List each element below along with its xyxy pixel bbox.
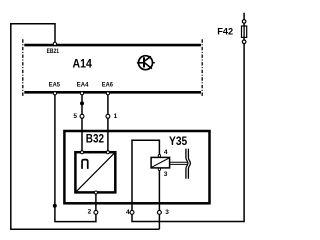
wire: EA4 down to B32 sensor top-left pin xyxy=(81,93,83,152)
svg-text:5: 5 xyxy=(73,113,77,120)
pin EB21 on A14 top xyxy=(53,42,56,45)
wire: Y35 pin4 elbow, down to terminal 4, right and up to fuse F42 xyxy=(132,13,244,222)
pin EA4 on A14 bottom xyxy=(80,92,83,95)
sensor pin top-left xyxy=(81,151,84,154)
valve diagonal xyxy=(152,158,169,167)
junction dot on EA5 wire xyxy=(53,204,57,208)
wire: Y35 pin3 down through terminal circle 3 to bottom run xyxy=(158,170,160,229)
sensor diagonal xyxy=(77,153,115,191)
sensor pin bottom xyxy=(94,191,97,194)
svg-text:3: 3 xyxy=(164,171,168,178)
svg-text:3: 3 xyxy=(165,209,169,216)
pin EA6 on A14 bottom xyxy=(106,92,109,95)
svg-text:F42: F42 xyxy=(217,26,233,37)
terminal circle 3 xyxy=(157,210,161,214)
junction dot on EA4 wire xyxy=(80,101,84,105)
A14 bottom border line xyxy=(24,91,201,94)
svg-text:A14: A14 xyxy=(73,57,93,71)
wire: EB21 feed, left side run, bottom run to terminal 3 xyxy=(11,24,160,229)
fuse body xyxy=(242,26,247,37)
A14 top border line xyxy=(24,44,201,47)
svg-text:EA4: EA4 xyxy=(77,81,89,88)
svg-text:EB21: EB21 xyxy=(47,48,60,55)
fuse element line xyxy=(243,26,245,37)
wire: EA6 down to B32 sensor top-right pin xyxy=(107,93,109,152)
A14 left dash-dot border xyxy=(22,39,24,97)
sensor B32 square xyxy=(75,152,115,192)
valve mechanical linkage double line upper xyxy=(170,161,187,163)
fuse F42 symbol xyxy=(242,20,247,44)
svg-text:EA6: EA6 xyxy=(102,81,114,88)
valve pin 4 xyxy=(158,155,160,157)
terminal circle 4 xyxy=(130,210,134,214)
svg-text:Y35: Y35 xyxy=(169,134,188,148)
sensor Pi symbol xyxy=(82,160,88,169)
fuse top connector circle xyxy=(242,20,246,24)
svg-text:2: 2 xyxy=(88,209,92,216)
svg-text:4: 4 xyxy=(126,209,130,216)
wire: EA5 down, along bottom, up to terminal 2 and B32 bottom pin xyxy=(55,93,96,222)
valve mechanical linkage double line lower xyxy=(170,163,187,165)
solenoid valve Y35 body xyxy=(151,157,170,168)
pin EA5 on A14 bottom xyxy=(53,92,56,95)
terminal circle 1 xyxy=(106,114,110,118)
valve pin 3 xyxy=(158,168,160,170)
svg-text:EA5: EA5 xyxy=(49,81,61,88)
terminal circle 2 xyxy=(94,210,98,214)
fuse bottom connector circle xyxy=(242,40,246,44)
terminal circle 5 xyxy=(80,114,84,118)
component box A14 (control unit, dash-dot side borders) xyxy=(23,39,202,97)
valve spring/wavy symbol line 2 xyxy=(188,149,190,179)
steering wheel icon in A14 xyxy=(137,56,155,70)
svg-text:B32: B32 xyxy=(86,134,104,146)
A14 right dash-dot border xyxy=(201,39,203,97)
svg-text:1: 1 xyxy=(114,113,118,120)
svg-text:4: 4 xyxy=(164,149,168,156)
outer device box (B32 + Y35 assembly) xyxy=(64,131,209,203)
valve spring/wavy symbol line 1 xyxy=(186,149,188,179)
sensor pin top-right xyxy=(106,151,109,154)
